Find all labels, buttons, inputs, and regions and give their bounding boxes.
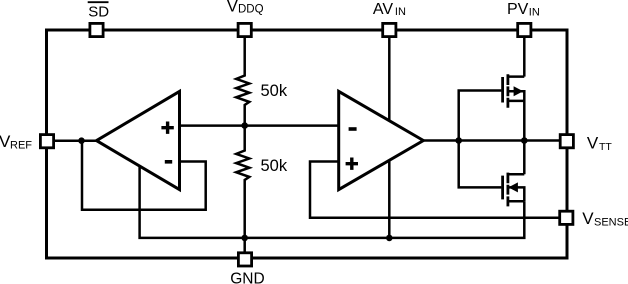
svg-text:AV: AV: [373, 1, 393, 18]
svg-text:50k: 50k: [261, 82, 288, 100]
svg-text:SD: SD: [88, 4, 109, 21]
svg-text:SENSE: SENSE: [594, 216, 628, 228]
svg-text:GND: GND: [230, 270, 264, 284]
svg-text:TT: TT: [599, 141, 612, 153]
svg-text:IN: IN: [529, 6, 540, 18]
svg-text:V: V: [227, 0, 238, 16]
svg-text:IN: IN: [395, 6, 406, 18]
svg-text:DDQ: DDQ: [238, 4, 264, 16]
svg-text:REF: REF: [10, 139, 32, 151]
svg-text:V: V: [582, 209, 594, 228]
svg-text:PV: PV: [507, 1, 529, 18]
svg-text:50k: 50k: [261, 157, 288, 175]
svg-text:V: V: [587, 134, 599, 153]
